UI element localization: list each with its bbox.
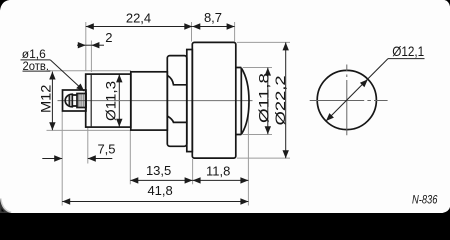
threaded section xyxy=(86,74,131,127)
ext h y=134.5 (Ø11,8 bottom) xyxy=(243,134,272,136)
black corner top-left xyxy=(0,0,10,11)
svg-text:22,4: 22,4 xyxy=(126,10,151,25)
dimension M12 xyxy=(38,72,56,131)
ext h y=67.5 (Ø11,8 top) xyxy=(243,67,272,69)
hex facet top xyxy=(167,75,187,84)
screw shank xyxy=(72,95,77,106)
svg-text:41,8: 41,8 xyxy=(147,183,172,198)
extension lines (gray) xyxy=(47,22,291,206)
ext v x=62.2 (7,5 left / 41,8 left) xyxy=(61,112,63,206)
ext h y=130.4 (M12 bottom) xyxy=(47,129,132,131)
bushing with holes xyxy=(77,94,86,108)
screw head dome xyxy=(65,94,72,107)
ext v x=87.8 (7,5 right) xyxy=(87,128,89,164)
black corner top-right xyxy=(445,0,450,7)
dimension Ø11,8 xyxy=(256,68,272,135)
svg-text:N-836: N-836 xyxy=(412,192,438,206)
ext h y=158.1 (Ø22,2 bottom) xyxy=(237,157,290,159)
flange body xyxy=(192,42,236,158)
crosshair vertical xyxy=(346,65,348,136)
svg-text:7,5: 7,5 xyxy=(97,141,115,156)
svg-text:M12: M12 xyxy=(38,84,54,113)
collar xyxy=(187,50,193,152)
svg-text:Ø12,1: Ø12,1 xyxy=(392,43,424,59)
shank section xyxy=(131,72,168,130)
lens dome arc xyxy=(241,68,249,135)
black corner bottom-left xyxy=(0,199,11,214)
ext h y=71 (M12 top) xyxy=(47,70,132,72)
ext v x=192.3 (22,4 right / 8,7 left) xyxy=(191,22,193,42)
hex facet bottom xyxy=(167,116,187,122)
black corner bottom-right xyxy=(443,207,450,213)
thread relief line x=91.2 xyxy=(90,74,92,127)
crosshair horizontal xyxy=(310,100,388,102)
dimension 13,5 xyxy=(130,163,192,184)
ext v x=130.3 (13,5 left) xyxy=(129,131,131,184)
terminal block R1 xyxy=(63,90,87,111)
screw slot xyxy=(68,95,70,105)
dimension 7,5 xyxy=(42,141,115,161)
dimension Ø22,2 xyxy=(272,42,289,158)
ext v x=234.6 (8,7 right) xyxy=(234,22,236,42)
svg-text:Ø11,8: Ø11,8 xyxy=(256,73,272,123)
dimension 2 xyxy=(77,30,113,48)
label Ø1,6 2отв. xyxy=(21,47,85,91)
svg-text:13,5: 13,5 xyxy=(146,163,171,178)
ext v x=85.8 (22,4 left / 2 left) xyxy=(85,22,87,71)
ext v x=91.4 (2 right) xyxy=(90,41,92,73)
svg-text:8,7: 8,7 xyxy=(204,10,222,25)
ext v x=248.4 (11,8 right / 41,8 right) xyxy=(247,103,249,206)
dimension 11,8 xyxy=(193,163,249,183)
dimension Ø11,3 xyxy=(102,74,122,126)
svg-text:Ø22,2: Ø22,2 xyxy=(272,75,288,125)
front view circle xyxy=(317,70,376,129)
svg-text:11,8: 11,8 xyxy=(206,163,230,178)
ext h y=42.4 (Ø22,2 top) xyxy=(237,41,290,43)
hex nut xyxy=(167,56,187,147)
diameter diagonal Ø12,1 xyxy=(326,43,425,121)
lens base xyxy=(236,68,242,135)
dimension 22,4 xyxy=(86,10,193,29)
ext v x=192.6 (13,5 right / 11,8 left) xyxy=(192,159,194,184)
svg-text:2: 2 xyxy=(105,30,112,45)
centerline side view xyxy=(58,100,253,102)
dimension 8,7 xyxy=(192,10,234,30)
dimension 41,8 xyxy=(62,183,248,205)
